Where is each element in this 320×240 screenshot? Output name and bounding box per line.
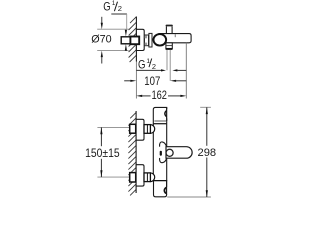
svg-text:107: 107 [144, 74, 160, 88]
svg-text:298: 298 [198, 147, 217, 159]
svg-text:2: 2 [118, 4, 122, 13]
svg-text:2: 2 [152, 62, 156, 71]
svg-text:1: 1 [112, 0, 116, 7]
svg-text:G: G [103, 0, 110, 14]
svg-text:150±15: 150±15 [85, 146, 120, 160]
svg-text:G: G [138, 58, 146, 72]
svg-text:Ø70: Ø70 [91, 34, 111, 46]
svg-text:162: 162 [151, 88, 167, 102]
